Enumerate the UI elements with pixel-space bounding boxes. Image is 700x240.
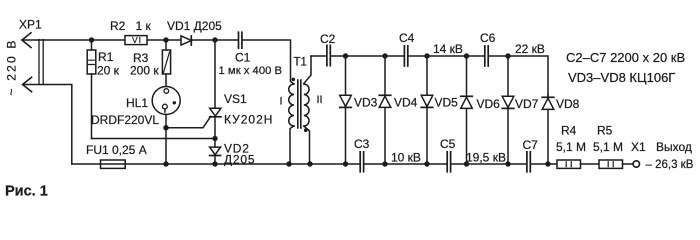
capacitor C3 (360, 152, 363, 172)
connector XP1 pin top arrow (22, 33, 31, 48)
svg-text:1 мк х 400 В: 1 мк х 400 В (219, 65, 283, 77)
svg-text:Х1: Х1 (631, 140, 646, 154)
wire R5 to X1 (623, 163, 634, 165)
svg-text:Рис. 1: Рис. 1 (5, 184, 48, 200)
svg-text:VD3–VD8 КЦ106Г: VD3–VD8 КЦ106Г (568, 70, 675, 85)
junction T1 secondary bottom rail (307, 161, 312, 166)
wire gate of VS1 from HL1 node (166, 117, 211, 128)
capacitor C7 (527, 152, 530, 172)
svg-text:14 кВ: 14 кВ (433, 42, 463, 56)
wire VD3 column (345, 56, 347, 164)
wire R4 to R5 (581, 163, 600, 165)
svg-text:~ 220 В: ~ 220 В (5, 38, 19, 95)
svg-text:С6: С6 (480, 31, 496, 45)
svg-text:VD4: VD4 (394, 96, 418, 110)
wire multiplier top rail (311, 56, 548, 95)
svg-text:R5: R5 (597, 124, 613, 138)
svg-text:КУ202Н: КУ202Н (224, 113, 273, 127)
svg-text:Выход: Выход (656, 140, 692, 154)
junction R1 VS1 cathode node (212, 136, 217, 141)
svg-text:1 к: 1 к (136, 19, 152, 33)
diode VD8 (542, 97, 554, 109)
resistor R1 20k (87, 40, 96, 139)
junction VD8 bottom rail (545, 161, 550, 166)
svg-text:10 кВ: 10 кВ (391, 151, 421, 165)
svg-text:С3: С3 (354, 137, 370, 151)
svg-text:II: II (317, 94, 323, 106)
svg-text:С4: С4 (399, 31, 415, 45)
diode VD4 (379, 95, 391, 107)
capacitor C4 (404, 46, 407, 66)
polarity dot secondary (304, 128, 308, 132)
junction HL1 bottom rail (163, 161, 168, 166)
svg-text:С2–С7 2200 х 20 кВ: С2–С7 2200 х 20 кВ (566, 50, 685, 65)
svg-text:R2: R2 (110, 19, 126, 33)
junction VD7 top rail (505, 53, 510, 58)
junction VD3 bottom rail (343, 161, 348, 166)
junction VD5 bottom rail (424, 161, 429, 166)
capacitor C6 (485, 46, 488, 66)
svg-text:20 к: 20 к (97, 64, 120, 78)
svg-text:R1: R1 (98, 50, 114, 64)
diode VD1 D205 (181, 36, 191, 45)
svg-text:– 26,3 кВ: – 26,3 кВ (646, 159, 694, 171)
svg-text:C1: C1 (235, 51, 251, 65)
transformer T1 secondary winding II (304, 56, 311, 164)
transformer T1 core (298, 80, 301, 128)
capacitor C5 (447, 152, 450, 172)
junction VD4 top rail (382, 53, 387, 58)
svg-text:5,1 М: 5,1 М (593, 140, 623, 154)
junction VD4 bottom rail (382, 161, 387, 166)
neon lamp HL1 DRDF220VL (152, 87, 180, 115)
resistor R2 1k (fusible, VI mark) (125, 36, 147, 45)
transformer T1 primary winding I (289, 40, 294, 164)
junction VD3 top rail (343, 53, 348, 58)
wire VD7 column (507, 56, 509, 164)
junction VD6 bottom rail (464, 161, 469, 166)
wire VD5 column (426, 56, 428, 164)
diode VD5 (421, 95, 433, 107)
junction VS1 anode top rail (212, 37, 217, 42)
resistor R4 5.1M (557, 160, 581, 168)
svg-text:VD8: VD8 (556, 97, 580, 111)
wire VD4 column (384, 56, 386, 164)
svg-text:VD5: VD5 (435, 96, 459, 110)
wire HL1 down to bottom rail (165, 115, 167, 165)
junction VD6 top rail (464, 53, 469, 58)
svg-text:19,5 кВ: 19,5 кВ (466, 151, 506, 165)
svg-text:200 к: 200 к (130, 64, 159, 78)
svg-text:HL1: HL1 (126, 96, 148, 110)
svg-text:DRDF220VL: DRDF220VL (91, 113, 159, 127)
svg-text:R4: R4 (561, 124, 577, 138)
wire R1 bottom to VS1 cathode node (92, 138, 216, 140)
svg-text:VS1: VS1 (224, 92, 247, 106)
diode VD6 (461, 96, 473, 108)
junction VD5 top rail (424, 53, 429, 58)
thyristor VS1 KU202N (210, 40, 221, 147)
svg-text:С2: С2 (320, 32, 336, 46)
svg-text:VI: VI (132, 35, 142, 45)
junction VD2 bottom rail (212, 161, 217, 166)
diode VD2 D205 (210, 147, 221, 164)
wire VD6 column (466, 56, 468, 164)
resistor R3 200k with diagonal mark (162, 40, 170, 89)
junction R1 top rail (89, 37, 94, 42)
junction VD7 bottom rail (505, 161, 510, 166)
svg-text:I: I (280, 96, 283, 108)
terminal X1 (633, 161, 639, 167)
svg-text:С5: С5 (440, 137, 456, 151)
junction HL1 gate node (163, 125, 168, 130)
svg-text:VD7: VD7 (515, 97, 539, 111)
capacitor C2 (327, 45, 330, 65)
svg-text:VD3: VD3 (354, 96, 378, 110)
polarity dot primary (292, 78, 296, 82)
connector XP1 pin bottom arrow (23, 77, 32, 92)
junction T1 primary bottom rail (286, 161, 291, 166)
svg-text:С7: С7 (523, 138, 539, 152)
svg-text:5,1 М: 5,1 М (556, 140, 586, 154)
wire VD8 column (547, 95, 549, 164)
svg-text:Д205: Д205 (224, 153, 255, 167)
svg-text:ХР1: ХР1 (19, 18, 42, 32)
capacitor C1 1uF 400V (239, 32, 242, 48)
svg-text:Т1: Т1 (294, 57, 307, 69)
svg-text:FU1 0,25 А: FU1 0,25 А (86, 143, 147, 157)
wire top rail 220V side (22, 39, 237, 41)
resistor R5 5.1M (599, 160, 623, 168)
svg-text:VD1 Д205: VD1 Д205 (167, 19, 222, 33)
wire bottom rail (72, 163, 557, 165)
wire top rail after C1 to T1 (243, 39, 289, 41)
connector XP1 body double lines (39, 40, 43, 85)
wire bottom feed from plug (23, 85, 72, 165)
svg-text:VD6: VD6 (477, 97, 501, 111)
svg-text:22 кВ: 22 кВ (515, 42, 545, 56)
junction R3 top rail (163, 37, 168, 42)
diode VD3 (340, 95, 352, 107)
diode VD7 (502, 96, 514, 108)
fuse FU1 0.25A (101, 160, 126, 168)
